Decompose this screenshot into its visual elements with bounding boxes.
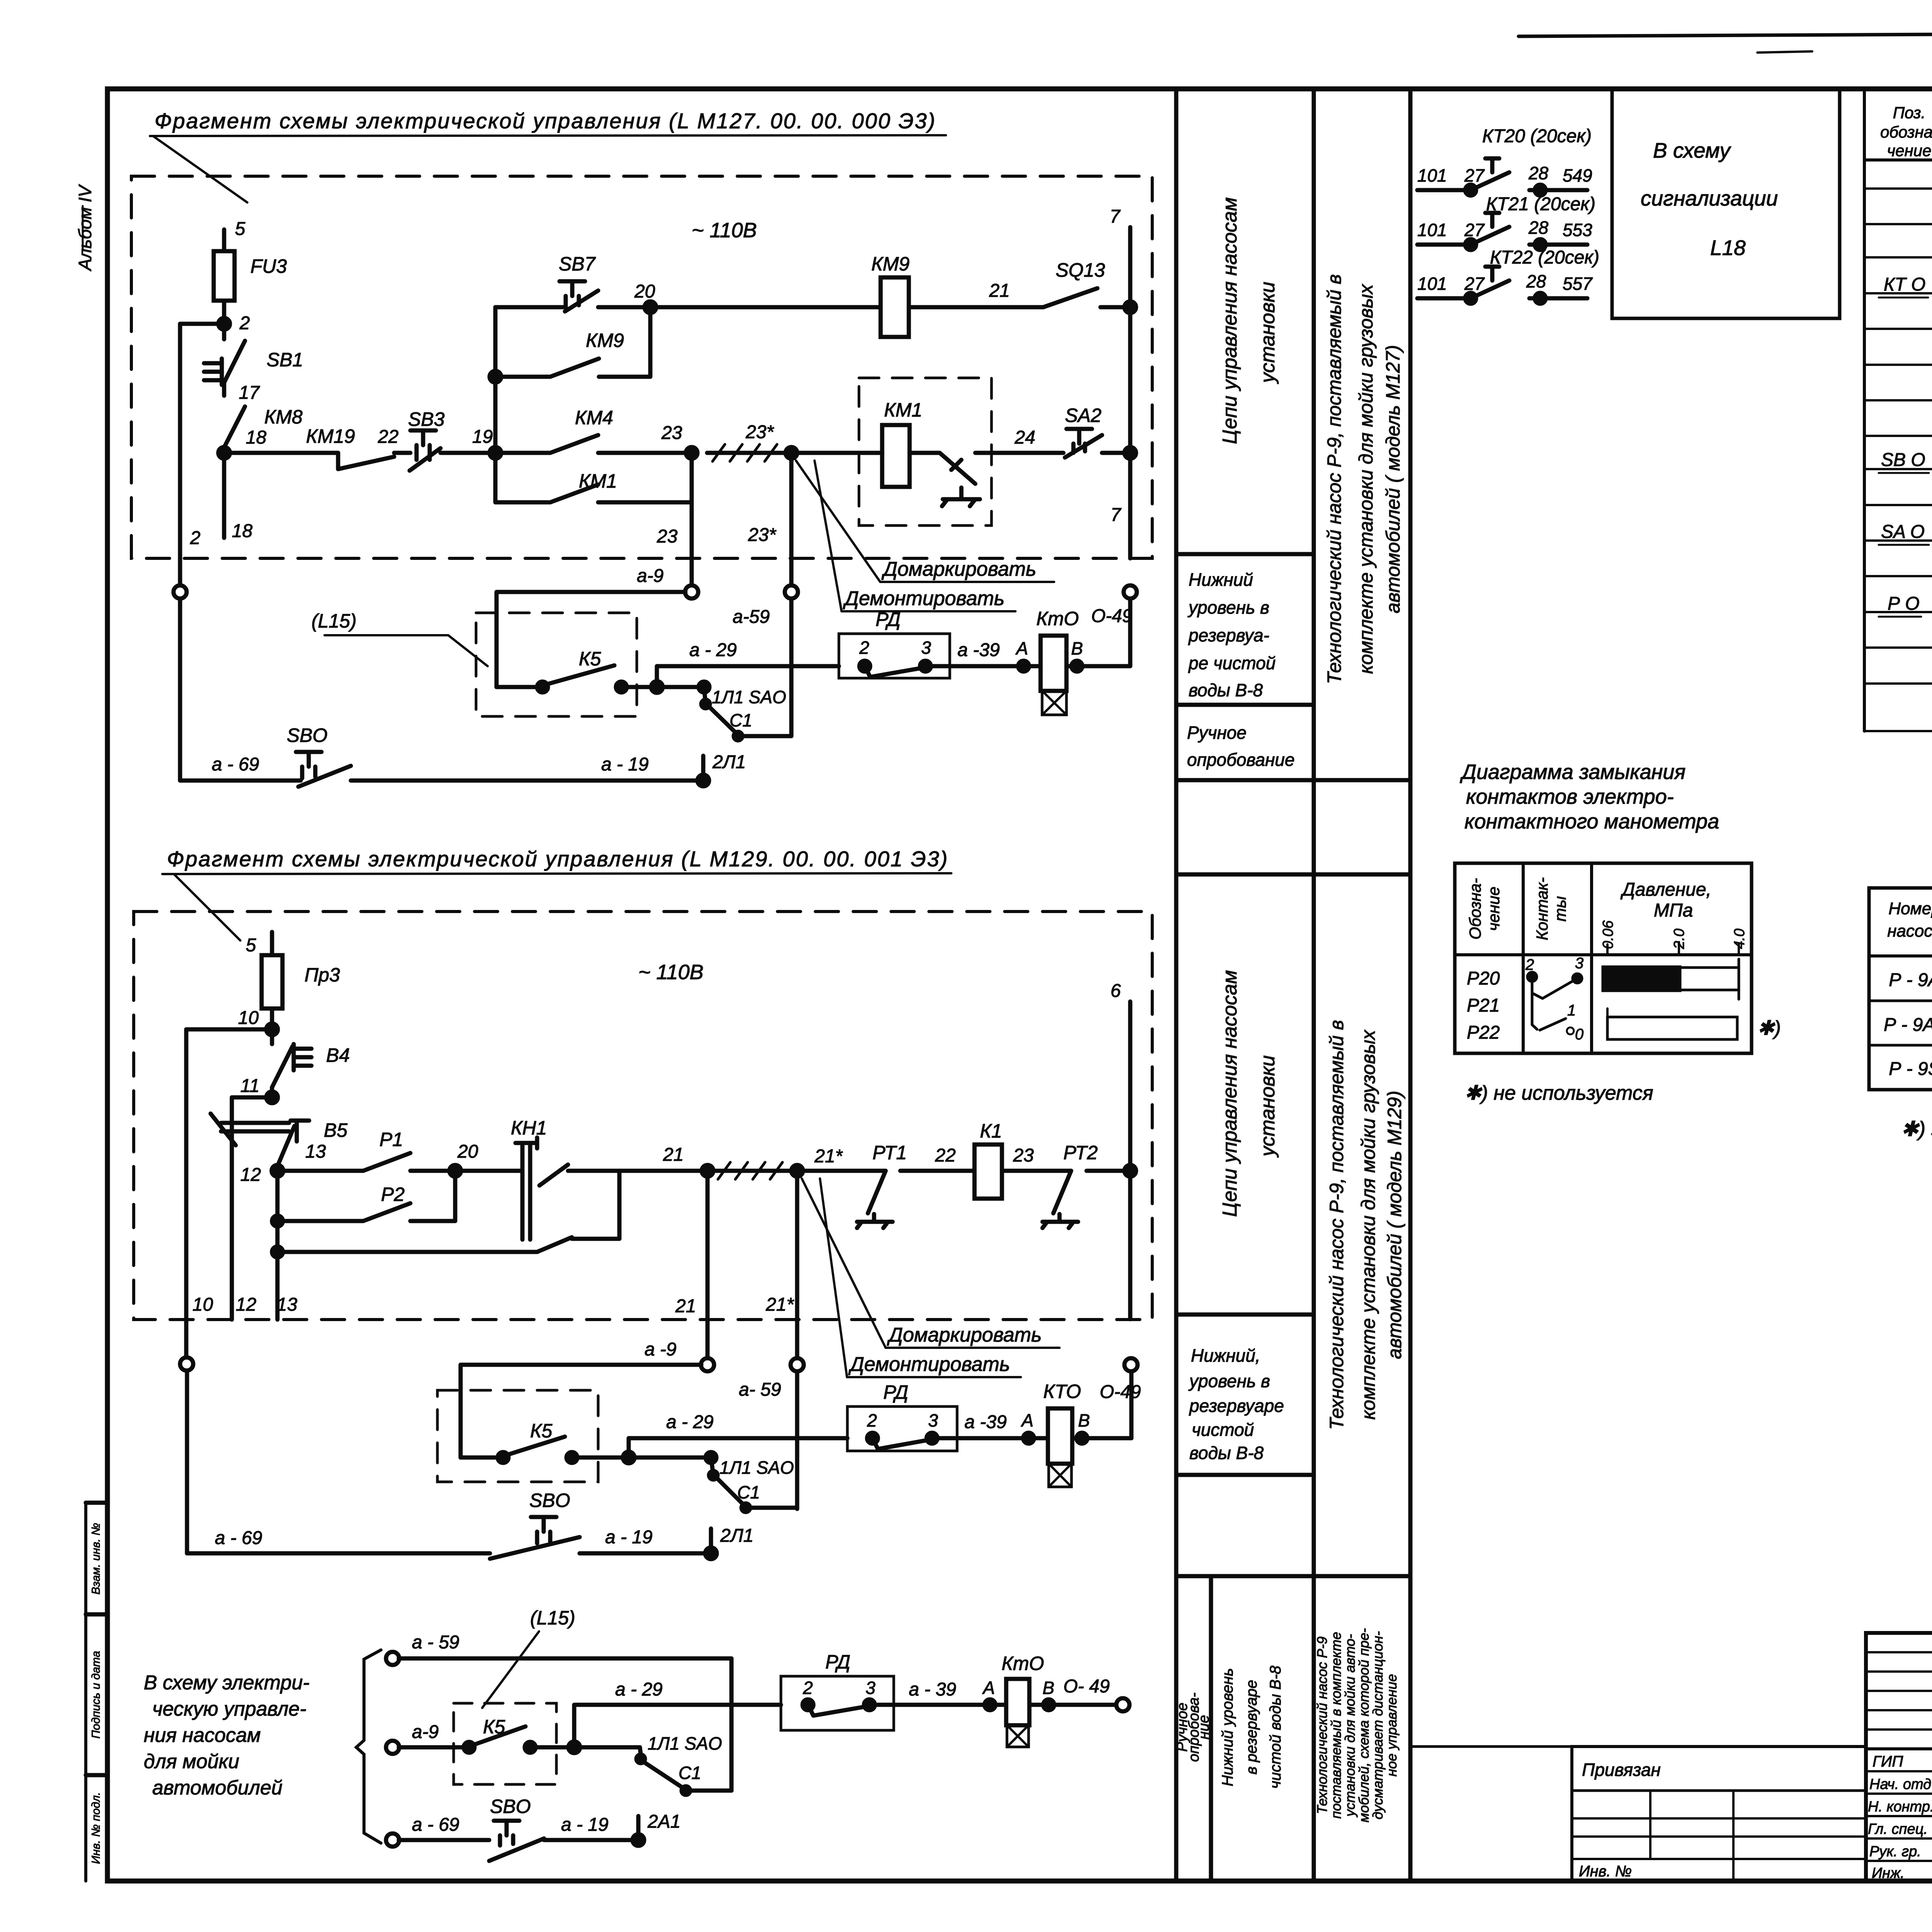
pushbutton SB7: [560, 281, 598, 311]
svg-text:чение: чение: [1485, 887, 1503, 931]
node 13: [272, 1165, 283, 1177]
svg-text:ГИП: ГИП: [1872, 1753, 1903, 1770]
node 19: [490, 447, 501, 459]
pressure bar row2 outline: [1607, 1017, 1737, 1039]
title block frame: [1866, 1633, 1932, 1881]
switch SA0 C1 frag2: [711, 1458, 746, 1507]
svg-text:Р22: Р22: [1467, 1022, 1500, 1043]
wire 22: [394, 451, 410, 455]
svg-text:6: 6: [1111, 981, 1121, 1001]
limit switch SQ13: [1043, 288, 1097, 307]
bottom rail to KN1 lower: [277, 1250, 537, 1254]
dashed box KM1 coil: [859, 378, 992, 526]
pushbutton SB3: [410, 430, 440, 471]
svg-text:Р - 9S: Р - 9S: [1889, 1059, 1932, 1079]
svg-text:21: 21: [989, 281, 1010, 301]
wire to node 21: [619, 1169, 707, 1173]
wire 13 rung: [277, 1169, 363, 1173]
coil KM1: [882, 425, 910, 487]
fragment 1 title leader: [153, 136, 247, 202]
svg-text:Цепи управления насосам: Цепи управления насосам: [1219, 197, 1241, 444]
svg-text:3: 3: [921, 638, 931, 658]
svg-text:ние: ние: [1196, 1715, 1212, 1739]
svg-text:1Л1 SAО: 1Л1 SAО: [719, 1458, 794, 1478]
fragment 2 title leader: [174, 874, 240, 940]
node 21*: [791, 1165, 803, 1177]
dashed box K5 frag3: [454, 1703, 556, 1784]
wire to SA0: [657, 685, 704, 689]
svg-text:К5: К5: [579, 648, 601, 670]
wire 20 to coil KM9: [650, 305, 881, 310]
svg-text:КМ4: КМ4: [575, 407, 613, 429]
svg-text:О- 49: О- 49: [1063, 1676, 1110, 1697]
wire 10 left rail: [186, 1029, 187, 1553]
wire 5 frag2: [270, 932, 274, 955]
chain switch KN1: [515, 1138, 537, 1240]
svg-text:SB О: SB О: [1881, 450, 1925, 470]
svg-text:FU3: FU3: [250, 255, 287, 277]
svg-text:а - 19: а - 19: [561, 1815, 609, 1835]
connector circle wire 21* / a-59: [791, 1358, 804, 1371]
wire 13 rail down: [276, 1171, 280, 1320]
svg-text:3: 3: [1575, 955, 1583, 972]
svg-text:В схему: В схему: [1653, 138, 1731, 162]
svg-text:комплекте установки для: комплекте установки для мойки грузовых: [1355, 284, 1377, 674]
svg-text:В схему электри-: В схему электри-: [144, 1672, 310, 1694]
terminal A frag2: [1023, 1433, 1034, 1444]
switch SA0 C1 frag3: [640, 1747, 685, 1789]
svg-text:21*: 21*: [814, 1146, 843, 1167]
svg-text:~ 110В: ~ 110В: [692, 219, 757, 242]
svg-text:SA О: SA О: [1881, 522, 1925, 542]
parts table frame: [1864, 89, 1932, 731]
svg-text:А: А: [982, 1678, 995, 1698]
contact KN1 upper: [518, 1165, 619, 1185]
wire Pr3 to node 10: [270, 1009, 274, 1029]
svg-text:2: 2: [867, 1410, 877, 1430]
svg-text:РТ2: РТ2: [1063, 1142, 1098, 1163]
connector circle a-9 frag3: [386, 1741, 399, 1754]
contact K5 frag2: [461, 1437, 629, 1458]
svg-text:С1: С1: [737, 1482, 760, 1502]
wire to node 18: [222, 447, 226, 453]
connector circle wire 2: [173, 585, 187, 599]
svg-text:Пр3: Пр3: [304, 964, 340, 986]
Kt0 crossed box: [1042, 691, 1066, 715]
wire 21: [909, 305, 1043, 310]
node 18: [218, 447, 230, 459]
svg-text:1Л1 SAО: 1Л1 SAО: [712, 687, 786, 707]
svg-text:557: 557: [1563, 274, 1593, 294]
svg-text:а-59: а-59: [733, 607, 770, 627]
svg-text:КМ8: КМ8: [264, 406, 303, 428]
svg-text:Инв. № подл.: Инв. № подл.: [90, 1792, 102, 1864]
svg-text:КМ1: КМ1: [579, 470, 617, 492]
contact RD 2-3 frag2: [867, 1433, 878, 1444]
terminal 2L1 frag2: [705, 1548, 717, 1559]
svg-text:Н. контр.: Н. контр.: [1868, 1799, 1932, 1815]
switch SB1: [204, 324, 245, 385]
svg-text:Р1: Р1: [379, 1129, 403, 1150]
svg-text:А: А: [1015, 638, 1028, 658]
svg-text:23*: 23*: [748, 525, 776, 545]
svg-text:11: 11: [240, 1076, 260, 1096]
svg-text:17: 17: [239, 383, 260, 403]
wire a-9 frag2: [461, 1365, 701, 1458]
svg-text:SB7: SB7: [559, 253, 596, 275]
svg-text:3: 3: [928, 1410, 938, 1430]
svg-text:22: 22: [378, 427, 398, 447]
svg-text:Рук. гр.: Рук. гр.: [1869, 1844, 1921, 1860]
svg-text:28: 28: [1528, 163, 1549, 183]
svg-text:автомобилей ( модель М127): автомобилей ( модель М127): [1382, 345, 1404, 613]
wire a-39: [925, 664, 1041, 668]
connector circle wire 21 / a-9: [701, 1358, 714, 1371]
svg-text:а - 29: а - 29: [615, 1679, 663, 1700]
svg-text:3: 3: [866, 1678, 876, 1698]
svg-text:21: 21: [675, 1296, 696, 1316]
diagram table frame: [1455, 863, 1752, 1053]
contact sketch 1-0: [1532, 993, 1566, 1030]
svg-text:23: 23: [1013, 1145, 1034, 1166]
svg-text:✱): ✱): [1757, 1017, 1781, 1039]
svg-text:Технологический насос Р-9: Технологический насос Р-9: [1314, 1636, 1330, 1814]
wire SQ13 to right rail: [1100, 305, 1130, 310]
pushbutton SB0: [296, 752, 351, 787]
svg-text:К5: К5: [483, 1716, 505, 1738]
svg-text:18: 18: [246, 427, 267, 448]
svg-text:чение: чение: [1887, 141, 1932, 160]
svg-text:10: 10: [192, 1294, 213, 1315]
wire a-9: [497, 592, 685, 687]
svg-text:(L15): (L15): [311, 610, 357, 632]
wire 23* to coil KM1: [791, 451, 882, 455]
wire 18 stub down: [222, 453, 226, 538]
svg-text:~ 110В: ~ 110В: [638, 961, 704, 984]
leader Домаркировать: [796, 461, 880, 582]
svg-text:контактного манометра: контактного манометра: [1464, 810, 1719, 833]
svg-text:21*: 21*: [765, 1294, 794, 1315]
pressure relay box RD frag2: [847, 1406, 957, 1451]
svg-text:2Л1: 2Л1: [712, 752, 746, 772]
connector circle wire 23* / a-59: [785, 585, 798, 599]
connector circle a-59 frag3: [386, 1652, 399, 1665]
svg-text:К1: К1: [980, 1120, 1002, 1142]
svg-text:Нижний,: Нижний,: [1191, 1345, 1260, 1366]
wire C1 to a-59 rail frag3: [686, 1789, 731, 1793]
node 10: [266, 1024, 278, 1035]
svg-text:Нижний уровень: Нижний уровень: [1219, 1668, 1236, 1786]
svg-text:101: 101: [1417, 220, 1447, 240]
pressure relay box RD frag3: [781, 1676, 894, 1730]
svg-text:КтО: КтО: [1036, 608, 1079, 629]
wire 24: [975, 451, 1063, 455]
svg-text:РТ1: РТ1: [872, 1142, 907, 1163]
left stamp strip lines: [84, 1503, 87, 1881]
svg-text:а - 69: а - 69: [212, 754, 259, 775]
svg-text:Привязан: Привязан: [1582, 1760, 1661, 1780]
svg-text:С1: С1: [730, 710, 752, 730]
fuse Pr3: [262, 955, 282, 1009]
svg-text:Демонтировать: Демонтировать: [848, 1353, 1010, 1376]
svg-text:13: 13: [305, 1141, 326, 1162]
svg-text:РД: РД: [876, 609, 901, 630]
svg-text:Контак-: Контак-: [1533, 878, 1551, 940]
node on right rail 7: [1124, 301, 1136, 313]
manual release symbol: [910, 453, 980, 506]
svg-text:КМ9: КМ9: [586, 330, 624, 351]
svg-text:С1: С1: [679, 1763, 701, 1783]
contact KM8: [224, 383, 245, 447]
svg-text:Диаграмма замыкания: Диаграмма замыкания: [1460, 760, 1685, 784]
wire 6 right rail: [1130, 1002, 1131, 1438]
svg-text:Нач. отд: Нач. отд: [1869, 1776, 1931, 1793]
svg-text:SBО: SBО: [287, 724, 328, 746]
svg-text:КМ9: КМ9: [871, 253, 910, 275]
wire a-69 frag3: [399, 1838, 489, 1842]
svg-text:резервуаре: резервуаре: [1189, 1396, 1284, 1416]
svg-text:а - 19: а - 19: [605, 1527, 653, 1548]
svg-text:Инв. №: Инв. №: [1579, 1863, 1632, 1880]
svg-text:2Л1: 2Л1: [720, 1526, 753, 1546]
thermal contact PT1: [857, 1171, 893, 1228]
svg-text:2: 2: [859, 638, 869, 658]
svg-text:КТ О: КТ О: [1884, 274, 1925, 295]
svg-text:0: 0: [1575, 1026, 1583, 1043]
svg-text:13: 13: [277, 1294, 298, 1315]
wire C1 to a-59 rail frag2: [746, 1506, 797, 1510]
contact KM4: [495, 435, 692, 453]
terminal A: [1018, 661, 1029, 672]
terminal B frag2: [1077, 1433, 1087, 1444]
svg-text:а - 69: а - 69: [412, 1815, 459, 1835]
wire a-59 frag3: [399, 1658, 731, 1791]
svg-text:10: 10: [238, 1008, 259, 1028]
svg-text:Поз.: Поз.: [1893, 104, 1926, 122]
svg-text:автомобилей ( модель М129: автомобилей ( модель М129): [1384, 1091, 1405, 1359]
svg-text:в резервуаре: в резервуаре: [1243, 1680, 1260, 1775]
pushbutton SB0 frag2: [490, 1517, 580, 1559]
svg-text:L18: L18: [1710, 236, 1746, 260]
svg-text:2А1: 2А1: [647, 1811, 680, 1832]
svg-text:12: 12: [236, 1294, 256, 1315]
wire a-9 frag3: [399, 1745, 467, 1750]
wire a-29: [657, 666, 839, 687]
svg-text:5: 5: [235, 219, 245, 239]
svg-text:Р2: Р2: [381, 1184, 405, 1205]
terminal 2A1 frag3: [633, 1834, 644, 1846]
svg-text:Домаркировать: Домаркировать: [887, 1324, 1042, 1346]
svg-text:В5: В5: [324, 1119, 347, 1141]
contact P2 branch: [277, 1171, 455, 1221]
node 21: [702, 1165, 713, 1177]
wire 23* drop / a-59: [789, 453, 794, 736]
svg-text:Демонтировать: Демонтировать: [843, 587, 1005, 610]
svg-text:а -39: а -39: [957, 640, 1000, 660]
svg-text:а - 29: а - 29: [689, 640, 737, 660]
svg-text:Р21: Р21: [1467, 995, 1500, 1016]
switch B4: [272, 1029, 311, 1087]
svg-text:КТО: КТО: [1043, 1381, 1081, 1402]
svg-text:Обозна-: Обозна-: [1466, 878, 1484, 939]
svg-text:В4: В4: [326, 1044, 350, 1066]
terminal 2L1: [697, 775, 709, 786]
svg-text:28: 28: [1528, 218, 1549, 238]
svg-text:Фрагмент схемы электрическо: Фрагмент схемы электрической управления …: [155, 109, 936, 133]
svg-text:а - 19: а - 19: [601, 754, 649, 775]
connector circle a-49 frag3: [1116, 1698, 1129, 1711]
connector circle a-49 frag2: [1124, 1358, 1138, 1371]
pressure bar row1 filled: [1604, 968, 1679, 990]
torn paper edge top: [1519, 33, 1932, 36]
junction K5 out frag2: [623, 1452, 634, 1463]
svg-text:23*: 23*: [745, 422, 774, 442]
connector circle wire 23 / a-9: [685, 585, 698, 599]
middle column horizontal dividers: [1176, 554, 1410, 1576]
Kt0 crossed box frag2: [1049, 1464, 1071, 1487]
wire 23 drop to a-9: [690, 453, 694, 586]
svg-text:101: 101: [1417, 165, 1447, 185]
wire 7 right rail: [1128, 227, 1133, 558]
wire 23 hatch marks: [707, 451, 791, 455]
wire FU3 to node 2: [222, 301, 226, 324]
svg-text:чистой воды В-8: чистой воды В-8: [1267, 1665, 1284, 1789]
terminal B: [1071, 661, 1082, 672]
pushbutton SB0 frag3: [489, 1821, 544, 1861]
svg-text:комплекте установки для: комплекте установки для мойки грузовых: [1357, 1029, 1379, 1420]
wire C1 to a-59 rail: [738, 734, 791, 738]
svg-text:установки для мойки авто-: установки для мойки авто-: [1342, 1634, 1358, 1818]
wire node2 to left rail: [180, 322, 224, 326]
svg-text:ния насосам: ния насосам: [144, 1724, 261, 1747]
wire 21 drop to a-9: [706, 1171, 710, 1359]
middle column verticals: [1176, 89, 1410, 1881]
svg-text:уровень в: уровень в: [1188, 1371, 1270, 1391]
svg-text:КН1: КН1: [511, 1117, 547, 1139]
svg-text:опробование: опробование: [1187, 750, 1295, 770]
wire 20 to KN1: [455, 1169, 518, 1173]
svg-text:а - 69: а - 69: [215, 1528, 262, 1548]
svg-text:В: В: [1043, 1678, 1054, 1698]
wire PT2 to rail 6: [1087, 1169, 1130, 1173]
pressure relay box RD: [839, 634, 950, 678]
coil KM9: [881, 277, 909, 337]
switch SA2: [1065, 429, 1102, 457]
svg-text:ческую управле-: ческую управле-: [152, 1698, 306, 1720]
svg-text:для мойки: для мойки: [144, 1750, 239, 1773]
wire a-19 frag3: [544, 1838, 638, 1842]
svg-text:поставляемый в комплекте: поставляемый в комплекте: [1328, 1632, 1344, 1818]
contact K5: [497, 665, 657, 687]
wire 19: [440, 451, 495, 455]
svg-text:а - 29: а - 29: [666, 1412, 714, 1432]
terminal B frag3: [1043, 1699, 1054, 1710]
wire a-29 frag3: [574, 1705, 781, 1747]
title block small rows: [1866, 1652, 1932, 1730]
svg-text:Нижний: Нижний: [1189, 570, 1253, 590]
svg-text:Р - 9А1: Р - 9А1: [1884, 1015, 1932, 1035]
svg-text:SBО: SBО: [529, 1490, 570, 1511]
contact KM1 aux branch: [495, 453, 692, 502]
svg-text:Технологический насос Р-9: Технологический насос Р-9, поставляемый …: [1326, 1020, 1347, 1430]
time relay coil Kt0: [1041, 636, 1066, 691]
contact KM19: [338, 453, 394, 469]
signal destination box: [1612, 89, 1840, 318]
svg-text:Домаркировать: Домаркировать: [881, 558, 1036, 580]
leader Домаркировать frag2: [802, 1179, 886, 1348]
wire 2 left rail: [178, 324, 182, 781]
svg-text:✱) заполняется при привя: ✱) заполняется при привязке проекта: [1901, 1117, 1932, 1141]
leader Демонтировать frag2: [820, 1179, 847, 1377]
svg-text:5: 5: [246, 935, 256, 956]
left branch rail: [493, 307, 498, 453]
contact K5 frag3: [475, 1726, 574, 1747]
svg-text:2: 2: [1525, 956, 1534, 973]
svg-text:КТ21 (20сек): КТ21 (20сек): [1486, 194, 1595, 214]
wire 21* to PT1: [797, 1169, 886, 1173]
junction K5 out: [651, 681, 663, 693]
svg-text:18: 18: [232, 521, 253, 541]
svg-text:Р О: Р О: [1888, 594, 1920, 614]
fragment 3 brace: [356, 1650, 381, 1843]
svg-text:12: 12: [240, 1165, 261, 1185]
svg-text:7: 7: [1110, 206, 1121, 227]
node 23: [686, 447, 697, 459]
svg-text:21: 21: [663, 1145, 684, 1165]
node 23*: [786, 447, 797, 459]
svg-text:В: В: [1078, 1410, 1090, 1430]
svg-text:Инж.: Инж.: [1872, 1865, 1905, 1881]
applicability table frame: [1869, 888, 1932, 1090]
switch B5: [277, 1121, 309, 1166]
contact KN1 lower: [537, 1171, 619, 1252]
svg-text:24: 24: [1014, 427, 1035, 448]
junction K5 out frag3: [568, 1742, 580, 1753]
svg-text:2: 2: [239, 313, 250, 333]
fuse FU3: [214, 251, 235, 301]
wire 21* drop / a-59: [795, 1171, 799, 1509]
svg-text:сигнализации: сигнализации: [1641, 186, 1778, 210]
svg-text:установки: установки: [1257, 282, 1279, 384]
leader Демонтировать: [815, 461, 842, 611]
wire a-49 frag2: [1072, 1436, 1131, 1440]
svg-text:установки: установки: [1257, 1055, 1279, 1158]
svg-text:а- 59: а- 59: [739, 1379, 781, 1400]
switch B5 mechanical link: [211, 1114, 289, 1145]
svg-text:В: В: [1071, 638, 1083, 658]
svg-text:23: 23: [661, 423, 682, 443]
pressure bar row1 outline: [1679, 968, 1739, 990]
terminal A frag3: [985, 1699, 995, 1710]
svg-text:МПа: МПа: [1654, 900, 1693, 921]
top rail to SB7: [495, 305, 565, 310]
svg-text:А: А: [1020, 1410, 1034, 1430]
node 20 frag2: [449, 1165, 461, 1177]
thermal contact PT2: [1043, 1171, 1078, 1228]
svg-text:К5: К5: [530, 1420, 552, 1442]
svg-text:SB1: SB1: [267, 349, 303, 371]
wire to SA0 frag2: [629, 1456, 711, 1460]
wire a-49 frag3: [1029, 1703, 1117, 1707]
svg-text:23: 23: [656, 526, 678, 547]
wire 21 hatch marks: [707, 1169, 797, 1173]
svg-text:101: 101: [1417, 274, 1447, 294]
svg-text:ное управление: ное управление: [1384, 1674, 1400, 1776]
svg-text:чистой: чистой: [1192, 1420, 1254, 1440]
contact RD 2-3 frag3: [803, 1699, 813, 1710]
dashed box K5 frag2: [437, 1390, 598, 1482]
wire to SA0 frag3: [574, 1745, 640, 1750]
